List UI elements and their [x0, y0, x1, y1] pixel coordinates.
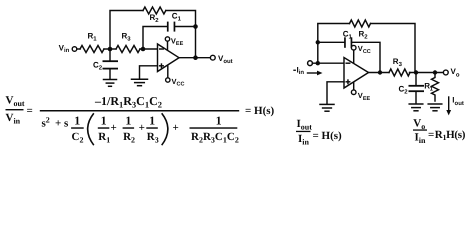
svg-text:1: 1 — [216, 113, 222, 127]
equation LHS Vout over Vin — [6, 95, 33, 126]
svg-text:R2: R2 — [150, 13, 160, 24]
current arrow Iin — [308, 71, 323, 76]
capacitor C2 — [93, 49, 118, 79]
big close parenthesis — [162, 113, 168, 145]
wire U2 noninverting input to ground — [327, 82, 344, 104]
svg-text:R3: R3 — [393, 57, 403, 68]
VCC terminal circle U2 — [351, 45, 356, 50]
svg-text:s: s — [64, 117, 69, 129]
wire U2 output through R3 to Vo — [369, 72, 390, 74]
wire Iin terminal to op-amp inverting input — [313, 62, 345, 64]
VEE terminal circle U1 — [165, 37, 169, 41]
junction input node — [316, 61, 320, 65]
wire R3 to op-amp inverting input — [140, 48, 158, 50]
output terminal circle Vo — [443, 70, 448, 75]
wire op-amp noninverting input to ground — [140, 66, 158, 79]
svg-text:R1H(s): R1H(s) — [435, 129, 466, 142]
equation fraction 1 over R1 — [98, 113, 110, 144]
equation Iout over Iin = H(s) — [296, 118, 342, 146]
svg-text:C2: C2 — [93, 60, 103, 71]
junction node B — [141, 47, 146, 52]
svg-text:=: = — [27, 105, 33, 117]
resistor R1 right (vertical) — [424, 73, 438, 102]
equation fraction 1 over R2 — [123, 113, 135, 144]
node Vin label — [59, 43, 70, 54]
junction C1 branch node — [316, 40, 320, 44]
svg-text:1: 1 — [149, 113, 155, 127]
capacitor C1 right — [343, 29, 353, 47]
svg-text:R1: R1 — [424, 81, 433, 92]
ground under C2 right — [409, 104, 423, 111]
VCC supply stub U1 — [167, 66, 169, 78]
equation main fraction bar — [40, 110, 239, 112]
svg-text:VEE: VEE — [171, 36, 184, 47]
VCC terminal circle U1 — [166, 78, 170, 82]
ground under C2 — [104, 80, 117, 87]
equation Vo over Iin = R1H(s) — [413, 118, 466, 145]
wire Vin terminal to R1 — [77, 48, 80, 50]
junction node D at R1 — [433, 70, 437, 74]
wire feedback R2 branch right circuit — [318, 24, 415, 73]
output terminal circle Vout — [210, 55, 215, 60]
svg-text:R3: R3 — [147, 131, 159, 144]
resistor R3 — [116, 31, 140, 52]
VEE terminal circle U2 — [351, 90, 356, 95]
svg-text:Vin: Vin — [6, 112, 21, 125]
equation fraction 1 over R3 — [146, 113, 158, 144]
op-amp U1 — [158, 44, 180, 72]
svg-text:Vout: Vout — [6, 95, 25, 108]
svg-text:=: = — [428, 129, 434, 141]
junction node C after R3 — [414, 70, 418, 74]
equation fraction 1 over R2R3C1C2 — [190, 113, 239, 144]
svg-text:Iout: Iout — [297, 118, 313, 131]
ground under R1 right — [428, 104, 442, 111]
input terminal circle Vin — [72, 47, 77, 52]
wire C1 branch from node B — [143, 27, 196, 50]
resistor R2 — [143, 7, 166, 24]
svg-text:R1: R1 — [98, 131, 110, 144]
wire feedback R2 branch (node A up, across, down to output) — [110, 11, 196, 58]
junction C1 to output wire — [378, 70, 382, 74]
resistor R2 right — [350, 20, 371, 40]
wire R1 to node A — [104, 48, 116, 50]
current arrow Iout — [446, 96, 464, 116]
svg-text:1: 1 — [101, 113, 107, 127]
junction output node — [193, 55, 198, 60]
svg-text:Iin: Iin — [415, 132, 427, 145]
svg-text:R2R3C1C2: R2R3C1C2 — [191, 131, 239, 144]
resistor R1 — [80, 31, 104, 52]
svg-text:1: 1 — [125, 113, 131, 127]
svg-text:+: + — [173, 122, 179, 134]
svg-text:C2: C2 — [72, 131, 84, 144]
svg-text:VCC: VCC — [358, 44, 371, 55]
svg-text:+: + — [111, 122, 117, 134]
VEE supply stub U1 — [167, 41, 169, 51]
svg-text:R1: R1 — [88, 31, 98, 42]
svg-text:s2: s2 — [42, 115, 50, 129]
svg-text:Vin: Vin — [59, 43, 70, 54]
svg-text:C1: C1 — [172, 11, 182, 22]
ground at U2 noninverting input — [320, 104, 334, 111]
wire R3 to Vo terminal — [410, 72, 444, 74]
svg-text:Vout: Vout — [218, 54, 233, 65]
input terminal circle Iin — [308, 61, 313, 66]
wire C1 branch right circuit — [318, 42, 380, 72]
op-amp U2 — [344, 58, 369, 89]
big open parenthesis — [88, 113, 94, 145]
equation fraction 1 over C2 — [71, 113, 84, 144]
svg-text:= H(s): = H(s) — [313, 130, 343, 142]
junction node A — [108, 47, 113, 52]
resistor R3 right — [389, 57, 410, 76]
svg-text:Iin: Iin — [297, 65, 305, 76]
svg-text:R2: R2 — [123, 131, 135, 144]
svg-text:+: + — [55, 117, 61, 129]
capacitor C1 — [167, 11, 182, 31]
node Iin label — [293, 65, 304, 76]
VCC supply stub U2 — [353, 50, 355, 64]
svg-text:R3: R3 — [122, 31, 132, 42]
equation denominator s2 + s term — [42, 115, 70, 129]
svg-text:+: + — [139, 122, 145, 134]
wire op-amp output to Vout — [179, 57, 211, 59]
svg-text:–1/R1R3C1C2: –1/R1R3C1C2 — [94, 94, 162, 109]
VEE supply stub U2 — [353, 82, 355, 91]
svg-text:VCC: VCC — [172, 77, 185, 88]
junction C1 branch to feedback wire — [193, 24, 198, 29]
svg-text:R2: R2 — [359, 29, 369, 40]
svg-text:Vo: Vo — [413, 118, 425, 131]
svg-text:= H(s): = H(s) — [245, 105, 275, 117]
svg-text:VEE: VEE — [358, 91, 371, 102]
svg-text:Iin: Iin — [298, 133, 310, 146]
svg-text:Vo: Vo — [451, 67, 460, 78]
ground at U1 noninverting input — [132, 79, 148, 86]
svg-text:1: 1 — [74, 113, 80, 127]
svg-text:C2: C2 — [399, 84, 409, 95]
capacitor C2 right — [399, 73, 425, 104]
svg-text:Iout: Iout — [452, 96, 464, 107]
